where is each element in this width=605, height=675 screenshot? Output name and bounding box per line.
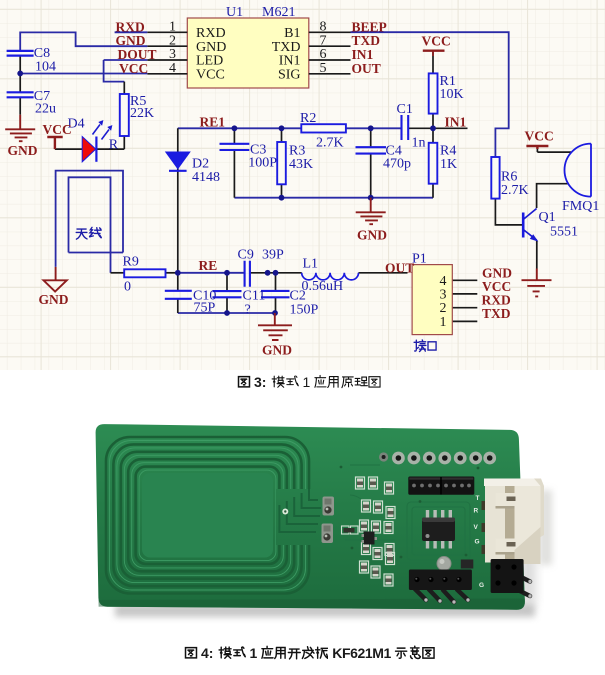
svg-text:10K: 10K bbox=[440, 87, 464, 102]
svg-text:100P: 100P bbox=[248, 156, 277, 171]
svg-text:IN1: IN1 bbox=[352, 47, 374, 62]
svg-text:VCC: VCC bbox=[119, 61, 148, 76]
svg-text:22K: 22K bbox=[130, 106, 154, 121]
svg-text:C2: C2 bbox=[290, 289, 306, 304]
svg-text:T: T bbox=[476, 495, 480, 502]
svg-text:Q1: Q1 bbox=[539, 210, 556, 225]
svg-text:RXD: RXD bbox=[196, 26, 226, 41]
svg-text:DOUT: DOUT bbox=[118, 47, 157, 62]
svg-text:RXD: RXD bbox=[482, 292, 511, 307]
svg-text:VCC: VCC bbox=[196, 68, 225, 83]
svg-text:BEEP: BEEP bbox=[352, 19, 387, 34]
svg-text:TXD: TXD bbox=[352, 33, 381, 48]
svg-text:GND: GND bbox=[262, 343, 292, 358]
svg-text:C11: C11 bbox=[243, 289, 266, 304]
svg-text:V: V bbox=[474, 524, 479, 531]
svg-text:104: 104 bbox=[35, 60, 56, 75]
svg-text:M621: M621 bbox=[262, 5, 295, 20]
svg-text:R: R bbox=[109, 138, 119, 153]
svg-text:3: 3 bbox=[440, 287, 447, 302]
svg-text:RE: RE bbox=[199, 258, 218, 273]
svg-text:U1: U1 bbox=[226, 5, 243, 20]
svg-text:OUT: OUT bbox=[385, 261, 414, 276]
svg-text:VCC: VCC bbox=[525, 129, 554, 144]
svg-text:R9: R9 bbox=[123, 255, 139, 270]
svg-text:R: R bbox=[474, 508, 479, 515]
svg-text:?: ? bbox=[245, 303, 251, 318]
svg-text:G: G bbox=[479, 582, 484, 589]
svg-text:75P: 75P bbox=[194, 301, 216, 316]
svg-text:5551: 5551 bbox=[550, 225, 578, 240]
svg-text:GND: GND bbox=[8, 143, 38, 158]
svg-text:B1: B1 bbox=[284, 26, 300, 41]
svg-text:6: 6 bbox=[320, 47, 327, 62]
svg-text:OUT: OUT bbox=[352, 61, 381, 76]
svg-text:GND: GND bbox=[357, 228, 387, 243]
svg-text:1: 1 bbox=[169, 20, 176, 35]
svg-text:TXD: TXD bbox=[482, 306, 511, 321]
svg-text:GND: GND bbox=[196, 40, 226, 55]
svg-text:1n: 1n bbox=[412, 136, 426, 151]
svg-text:C1: C1 bbox=[397, 102, 413, 117]
svg-text:4148: 4148 bbox=[192, 170, 220, 185]
svg-text:LED: LED bbox=[196, 54, 223, 69]
svg-text:R2: R2 bbox=[300, 111, 316, 126]
svg-text:22u: 22u bbox=[35, 102, 56, 117]
svg-text:RXD: RXD bbox=[116, 19, 145, 34]
svg-text:FMQ1: FMQ1 bbox=[562, 199, 599, 214]
svg-text:2.7K: 2.7K bbox=[316, 136, 344, 151]
svg-text:43K: 43K bbox=[289, 157, 313, 172]
svg-text:5: 5 bbox=[320, 61, 327, 76]
svg-text:GND: GND bbox=[39, 292, 69, 307]
svg-text:470p: 470p bbox=[383, 157, 411, 172]
svg-text:2: 2 bbox=[169, 33, 176, 48]
svg-text:VCC: VCC bbox=[43, 122, 72, 137]
svg-text:7: 7 bbox=[320, 33, 327, 48]
svg-text:3: 3 bbox=[169, 47, 176, 62]
svg-text:0.56uH: 0.56uH bbox=[302, 279, 344, 294]
svg-text:IN1: IN1 bbox=[279, 54, 301, 69]
svg-text:8: 8 bbox=[320, 20, 327, 35]
svg-text:GND: GND bbox=[116, 33, 146, 48]
svg-text:0: 0 bbox=[124, 280, 131, 295]
svg-text:SIG: SIG bbox=[278, 68, 301, 83]
svg-text:VCC: VCC bbox=[422, 34, 451, 49]
svg-text:L1: L1 bbox=[303, 257, 319, 272]
svg-text:150P: 150P bbox=[290, 303, 319, 318]
svg-text:39P: 39P bbox=[262, 248, 284, 263]
svg-text:4: 4 bbox=[169, 61, 176, 76]
svg-text:RE1: RE1 bbox=[200, 115, 226, 130]
svg-text:1K: 1K bbox=[440, 157, 457, 172]
svg-text:TXD: TXD bbox=[272, 40, 301, 55]
svg-text:C9: C9 bbox=[238, 248, 254, 263]
svg-text:IN1: IN1 bbox=[445, 115, 467, 130]
svg-text:1: 1 bbox=[440, 315, 447, 330]
svg-text:G: G bbox=[475, 539, 480, 546]
svg-text:2.7K: 2.7K bbox=[501, 183, 529, 198]
